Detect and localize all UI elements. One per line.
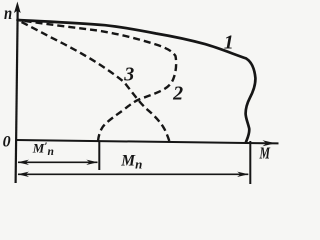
- axis M (horizontal): [17, 140, 279, 143]
- arrowhead of M axis: [263, 140, 276, 146]
- svg-text:2: 2: [172, 83, 183, 105]
- svg-text:3: 3: [123, 63, 134, 85]
- tick at M'p (vertical): [98, 141, 100, 171]
- tick at Mp (vertical): [249, 141, 251, 184]
- svg-text:М: М: [259, 143, 271, 162]
- arrowhead of n axis: [14, 2, 21, 14]
- curve 2 (dashed characteristic): [18, 20, 177, 141]
- paper background: [0, 0, 300, 199]
- svg-text:п: п: [4, 3, 12, 23]
- curve 3 (dashed characteristic): [18, 20, 170, 141]
- dimension arrow M'p: [18, 161, 98, 163]
- curve 1 (solid characteristic): [18, 20, 256, 142]
- axis n (vertical): [16, 8, 18, 183]
- svg-text:1: 1: [224, 32, 234, 54]
- svg-text:0: 0: [3, 133, 11, 150]
- dimension arrow Mp: [18, 173, 248, 175]
